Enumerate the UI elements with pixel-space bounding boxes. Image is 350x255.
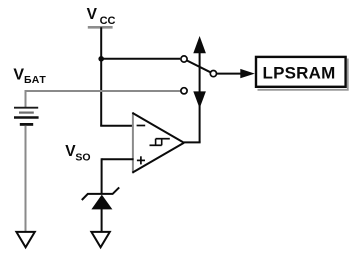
node VBAT label <box>13 66 46 86</box>
arrowhead down <box>193 91 206 108</box>
wire comparator output to actuation line <box>184 141 201 143</box>
svg-text:V: V <box>13 66 24 83</box>
ground right <box>91 232 109 247</box>
switch S1 contact 2 <box>181 88 187 94</box>
wire VCC to switch contact 1 <box>101 58 180 60</box>
wire VCC vertical <box>100 27 102 125</box>
battery BT1 <box>14 108 39 125</box>
node VSO label <box>65 143 90 164</box>
ground left <box>16 232 34 247</box>
svg-text:SO: SO <box>75 152 90 164</box>
wire battery to ground <box>25 126 27 231</box>
svg-text:БАТ: БАТ <box>24 74 46 86</box>
wire VSO down to zener <box>101 158 103 194</box>
switch S1 contact 1 <box>181 56 187 62</box>
svg-text:V: V <box>87 6 98 23</box>
switch S1 pole <box>210 71 216 77</box>
node VCC label <box>87 6 116 27</box>
zener diode VD1 <box>82 187 119 209</box>
op-amp hysteresis symbol <box>150 139 170 146</box>
junction dot VCC node <box>98 56 104 62</box>
wire VSO to non-inverting input <box>102 158 134 160</box>
LPSRAM block <box>256 57 348 90</box>
arrowhead into LPSRAM <box>240 69 255 78</box>
power rail VCC bar <box>88 26 113 29</box>
op-amp non-inverting input plus sign <box>137 156 145 164</box>
wire zener to ground <box>101 208 103 231</box>
op-amp inverting input minus sign <box>137 125 146 127</box>
wire VBAT horizontal to switch contact 2 <box>26 90 181 92</box>
svg-text:LPSRAM: LPSRAM <box>263 64 336 83</box>
wire switch pole to LPSRAM <box>217 73 243 75</box>
op-amp U1 comparator triangle <box>132 112 184 173</box>
wire VCC corner to inverting input <box>100 125 133 127</box>
wire comparator output vertical actuation line <box>199 53 201 143</box>
wire VBAT down to battery <box>25 90 27 107</box>
svg-text:CC: CC <box>100 15 116 27</box>
switch S1 lever <box>187 61 211 73</box>
arrowhead up <box>193 36 206 53</box>
